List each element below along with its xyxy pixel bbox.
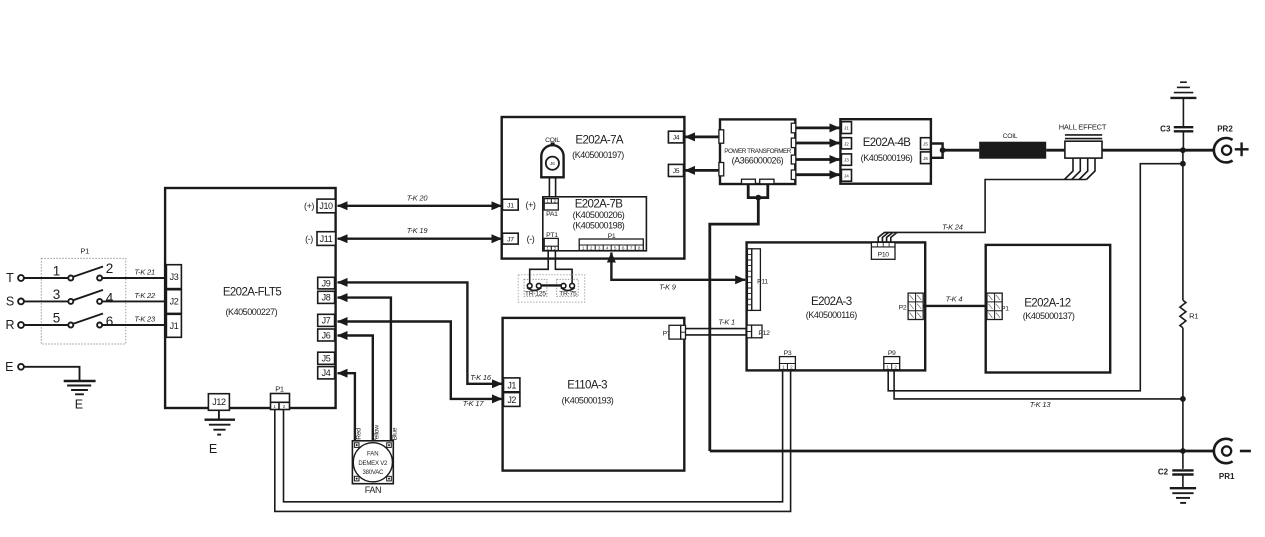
svg-text:Blue: Blue	[391, 427, 398, 440]
svg-text:FAN: FAN	[367, 451, 379, 457]
connector PA1	[544, 199, 558, 219]
connector J7 (7A left)	[503, 233, 535, 244]
wire bundle into P10	[878, 232, 897, 242]
svg-text:(-): (-)	[527, 234, 535, 244]
transformer right pins	[791, 123, 796, 179]
connector J8	[318, 291, 335, 303]
terminal E	[5, 360, 24, 374]
wire T-K 4 (P2 to P1)	[923, 295, 987, 306]
svg-text:R1: R1	[1189, 312, 1198, 321]
node R1/T-K13 junction	[1180, 396, 1186, 402]
connector J3	[166, 265, 181, 289]
connector J1 (7A left)	[503, 199, 536, 210]
svg-text:Red: Red	[356, 428, 363, 440]
svg-text:E202A-7A: E202A-7A	[575, 135, 624, 147]
transformer left pin lower	[719, 163, 724, 176]
svg-text:(+): (+)	[525, 200, 535, 210]
svg-text:P9: P9	[888, 350, 896, 357]
connector P7	[663, 325, 686, 339]
wire main DC bus to PR1	[710, 450, 1214, 453]
block E202A-7A	[502, 117, 685, 259]
wire coil to hall effect	[1046, 149, 1065, 152]
hall effect sensor U-HALL	[1059, 122, 1107, 158]
ground at J12	[205, 410, 236, 456]
connector J5 (4B right)	[921, 138, 931, 150]
connector J7	[318, 314, 335, 326]
svg-text:3: 3	[53, 287, 61, 302]
wire transformer to 4B J2	[796, 142, 840, 145]
svg-text:J10: J10	[319, 201, 333, 211]
connector J3 (4B)	[841, 154, 851, 165]
svg-text:T-K 23: T-K 23	[134, 315, 156, 324]
twin lead coil to PA1	[549, 177, 555, 198]
connector P12	[747, 325, 770, 338]
svg-text:C3: C3	[1160, 125, 1171, 134]
svg-text:P2: P2	[899, 304, 907, 311]
svg-text:J8: J8	[322, 293, 331, 303]
svg-text:6: 6	[106, 314, 114, 329]
connector PR2 (output +)	[1214, 124, 1249, 162]
fan B1	[352, 441, 393, 495]
connector J4	[318, 367, 335, 379]
svg-text:J1: J1	[170, 321, 179, 331]
block E202A-FLT5	[165, 188, 336, 408]
connector P3	[780, 350, 796, 370]
wire T-K 17 (J7 to E110A-3 J2)	[338, 322, 503, 409]
svg-text:P1: P1	[80, 247, 89, 256]
svg-text:(K405000193): (K405000193)	[562, 395, 614, 405]
svg-text:2: 2	[790, 365, 793, 370]
svg-text:(K405000227): (K405000227)	[225, 307, 277, 317]
connector J9	[318, 277, 335, 289]
svg-text:J1: J1	[507, 202, 514, 209]
wire transformer to 7A J5	[685, 169, 719, 172]
ground (top right, above C3)	[1170, 82, 1196, 126]
svg-text:(-): (-)	[305, 234, 313, 244]
block POWER TRANSFORMER	[720, 119, 795, 184]
svg-text:2: 2	[106, 261, 114, 276]
svg-text:(K405000196): (K405000196)	[861, 153, 913, 163]
svg-text:J7: J7	[322, 316, 331, 326]
svg-text:4: 4	[606, 246, 609, 251]
svg-text:2: 2	[554, 246, 557, 251]
svg-text:PA1: PA1	[546, 211, 558, 218]
svg-text:T-K 1: T-K 1	[718, 317, 735, 326]
wire T-K 1 (P7 to P12, twin)	[686, 317, 747, 335]
svg-text:J11: J11	[320, 234, 333, 244]
svg-text:1: 1	[582, 246, 585, 251]
svg-text:T: T	[6, 271, 14, 285]
svg-text:1: 1	[782, 365, 785, 370]
wire S to switch pole	[24, 300, 68, 302]
wire T-K 9 (7B P1 to E202A-3 P11, double arrow)	[611, 253, 745, 292]
transformer left pin upper	[719, 130, 724, 143]
svg-text:T-K 17: T-K 17	[463, 399, 485, 408]
connector J5 (7A right)	[668, 164, 683, 176]
svg-text:2: 2	[283, 404, 286, 409]
svg-text:J4: J4	[322, 368, 331, 378]
svg-text:(K405000137): (K405000137)	[1023, 311, 1075, 321]
wire transformer to 4B J3	[796, 158, 840, 161]
node PR1 junction	[1180, 448, 1186, 454]
block E202A-3	[747, 242, 926, 370]
wire T-K 23	[102, 315, 166, 325]
capacitor C3	[1160, 125, 1193, 151]
connector J2 (4B)	[841, 138, 851, 149]
connector P11	[747, 249, 768, 311]
svg-text:1: 1	[273, 404, 276, 409]
svg-text:S: S	[6, 295, 14, 309]
svg-text:POWER TRANSFORMER: POWER TRANSFORMER	[724, 148, 792, 155]
terminal R	[5, 318, 23, 332]
wire J4 to fan (Red)	[338, 373, 355, 440]
svg-text:E: E	[75, 398, 83, 412]
svg-text:(K405000116): (K405000116)	[806, 310, 857, 320]
svg-text:5: 5	[53, 310, 61, 325]
connector J1	[166, 314, 181, 337]
hall effect legs (4-wire bundle)	[1064, 158, 1095, 179]
svg-text:J4: J4	[673, 135, 680, 142]
svg-text:4: 4	[106, 290, 114, 305]
wire T-K 24 (hall legs to P10)	[884, 180, 1086, 233]
connector P2	[899, 293, 924, 319]
inductor COIL (output choke)	[979, 133, 1046, 159]
wire E to ground	[24, 367, 80, 381]
svg-text:8: 8	[638, 246, 641, 251]
svg-text:E110A-3: E110A-3	[567, 380, 607, 392]
svg-text:7: 7	[630, 246, 633, 251]
wire transformer to 4B J4	[796, 173, 840, 176]
svg-text:FAN: FAN	[365, 485, 381, 495]
svg-text:6: 6	[622, 246, 625, 251]
connector P10	[871, 242, 895, 259]
svg-text:T-K 19: T-K 19	[407, 226, 429, 235]
svg-text:J6: J6	[550, 161, 555, 166]
svg-text:P11: P11	[757, 278, 768, 285]
wire J8 to fan (Blue)	[338, 298, 391, 440]
wire hall effect to PR2 node	[1102, 149, 1214, 152]
wire T-K 16 (J9 to E110A-3 J1)	[338, 282, 503, 383]
svg-text:J3: J3	[170, 272, 179, 282]
connector PR1 (output -)	[1214, 439, 1251, 481]
coil symbol (solenoid) with J6	[541, 137, 563, 177]
wire J6 to fan (Yellow)	[338, 336, 373, 441]
wire T-K 21	[102, 268, 166, 278]
svg-text:E202A-12: E202A-12	[1024, 298, 1071, 310]
svg-text:J1: J1	[507, 380, 516, 390]
svg-text:E202A-3: E202A-3	[811, 296, 852, 308]
resistor R1	[1180, 300, 1198, 328]
node branch to P9	[1180, 161, 1186, 167]
connector PT1	[544, 232, 558, 251]
svg-text:TR-125: TR-125	[525, 291, 546, 298]
connector P1 (7B bottom, 8 pins)	[579, 233, 643, 251]
svg-text:J2: J2	[507, 395, 516, 405]
connector J12	[208, 394, 229, 411]
svg-text:T-K 21: T-K 21	[134, 268, 155, 277]
wire branch PR2-node to P9 (upper)	[888, 164, 1183, 391]
block E202A-4B	[840, 119, 931, 184]
svg-text:(A366000026): (A366000026)	[732, 156, 784, 166]
svg-text:J7: J7	[507, 236, 514, 243]
connector J11	[305, 232, 335, 246]
transformer TR-125	[524, 279, 547, 297]
svg-text:T-K 20: T-K 20	[407, 193, 429, 202]
transformer TR-75	[557, 279, 579, 297]
wire transformer to 7A J4	[685, 135, 719, 138]
wire R to switch pole	[24, 324, 68, 326]
svg-text:HALL EFFECT: HALL EFFECT	[1059, 122, 1107, 131]
wire FLT5 P1 pin2 to P3 (upper run)	[284, 370, 783, 502]
svg-text:J5: J5	[923, 142, 928, 147]
wire T-K 13 (P9 to R1 node)	[894, 370, 1183, 409]
ground E (left)	[64, 381, 96, 412]
svg-text:T-K 16: T-K 16	[470, 373, 492, 382]
capacitor C2	[1158, 451, 1194, 488]
svg-text:J2: J2	[844, 141, 849, 146]
svg-text:(+): (+)	[304, 201, 314, 211]
node PR2 junction	[1180, 147, 1186, 153]
connector P1 (line-input switch block) dashed outline	[41, 247, 126, 344]
svg-text:P1: P1	[1001, 305, 1009, 312]
svg-text:T-K 22: T-K 22	[134, 291, 156, 300]
svg-text:J2: J2	[170, 297, 179, 307]
svg-text:T-K 13: T-K 13	[1030, 400, 1052, 409]
wire transformer bottom to junction	[710, 184, 768, 451]
wire transformer to 4B J1	[796, 127, 840, 130]
terminal T	[6, 271, 24, 285]
wire T-K 19 (J11 to 7A J7, double arrow)	[338, 226, 502, 239]
svg-text:J5: J5	[322, 354, 331, 364]
ground at C2	[1170, 488, 1196, 503]
connector J6	[318, 329, 335, 341]
connector J2	[166, 290, 181, 314]
svg-text:T-K 24: T-K 24	[942, 222, 963, 231]
svg-text:2: 2	[590, 246, 593, 251]
connector J4 (4B)	[841, 170, 851, 182]
svg-text:(K405000198): (K405000198)	[573, 221, 625, 231]
wires 4B J5/J6 to junction	[931, 144, 980, 158]
svg-text:380VAC: 380VAC	[362, 470, 384, 476]
svg-text:T-K 4: T-K 4	[946, 295, 963, 304]
wire T-K 22	[102, 291, 166, 301]
svg-text:(K405000206): (K405000206)	[573, 210, 625, 220]
svg-text:J12: J12	[212, 397, 226, 407]
svg-text:5: 5	[614, 246, 617, 251]
svg-text:E: E	[5, 360, 13, 374]
switch S2 contacts 3-4	[53, 287, 114, 306]
wire T-K 20 (J10 to 7A J1, double arrow)	[338, 193, 502, 205]
svg-text:P3: P3	[784, 350, 792, 357]
svg-text:E202A-4B: E202A-4B	[863, 137, 912, 149]
connector J10	[304, 199, 336, 213]
transformer bottom pins	[742, 179, 775, 184]
block E110A-3	[503, 318, 685, 471]
svg-text:3: 3	[598, 246, 601, 251]
svg-text:P1: P1	[275, 384, 284, 393]
svg-text:1: 1	[546, 199, 549, 204]
connector P9	[884, 350, 900, 370]
switch S3 contacts 5-6	[53, 310, 114, 329]
wire R1 to node	[1182, 328, 1184, 451]
svg-text:J5: J5	[673, 168, 680, 175]
svg-text:J1: J1	[844, 126, 849, 131]
svg-text:PR1: PR1	[1219, 472, 1235, 481]
connector J2 (E110A-3)	[504, 393, 520, 407]
connector J1 (E110A-3)	[504, 378, 520, 392]
svg-text:E202A-7B: E202A-7B	[575, 199, 624, 211]
block E202A-12	[986, 245, 1110, 373]
svg-text:R: R	[5, 318, 14, 332]
connector P1 (FLT5 bottom)	[271, 384, 290, 409]
svg-text:J9: J9	[322, 278, 331, 288]
svg-text:2: 2	[894, 365, 897, 370]
svg-text:E202A-FLT5: E202A-FLT5	[223, 286, 282, 298]
svg-text:PR2: PR2	[1217, 124, 1233, 133]
svg-text:P10: P10	[878, 252, 890, 259]
connector J6 (4B right)	[921, 152, 931, 164]
wire bridge TR-125 to TR-75	[541, 284, 561, 286]
wires PT1 to TR terminals	[530, 251, 572, 284]
connector J5	[318, 352, 335, 364]
connector J1 (4B)	[841, 122, 851, 134]
svg-text:J4: J4	[844, 174, 849, 179]
connector J4 (7A right)	[668, 131, 683, 143]
svg-text:1: 1	[886, 365, 889, 370]
svg-text:1: 1	[53, 263, 61, 278]
svg-text:E: E	[209, 442, 217, 456]
wire FLT5 P1 pin1 to P3 (lower run)	[275, 370, 791, 512]
wire T to switch pole	[24, 277, 68, 279]
svg-text:J6: J6	[923, 156, 928, 161]
svg-text:2: 2	[554, 199, 557, 204]
terminal S	[6, 295, 24, 309]
wire node to R1	[1182, 150, 1184, 300]
svg-text:C2: C2	[1158, 468, 1169, 477]
svg-text:J6: J6	[322, 330, 331, 340]
TR assembly dashed outline	[518, 275, 585, 302]
svg-text:DEMEX V2: DEMEX V2	[358, 461, 388, 467]
svg-text:J3: J3	[844, 158, 849, 163]
connector P1 (E202A-12)	[987, 293, 1009, 319]
svg-text:COIL: COIL	[1003, 133, 1018, 140]
switch S1 contacts 1-2	[53, 261, 114, 281]
svg-text:TR-75: TR-75	[559, 291, 577, 298]
svg-text:1: 1	[546, 246, 549, 251]
svg-text:(K405000197): (K405000197)	[572, 150, 624, 160]
svg-text:P12: P12	[758, 330, 770, 337]
svg-text:T-K 9: T-K 9	[659, 283, 677, 292]
block E202A-7B	[543, 197, 647, 251]
